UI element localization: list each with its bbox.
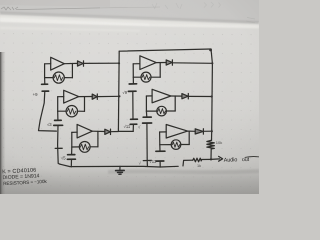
wire R3 output to diode	[188, 130, 196, 132]
resistor Rmix horizontal	[193, 158, 202, 162]
tick on L2 stem	[55, 147, 62, 149]
wire L1 input	[45, 63, 51, 65]
wire L2 cap stem to rail	[58, 125, 60, 164]
wire R2 input	[146, 95, 152, 97]
wire bus elbow up to cap	[132, 124, 134, 131]
paper background	[0, 0, 259, 194]
wire R2 diode to right bus	[188, 95, 211, 97]
wire L2 input	[58, 96, 64, 98]
arrowhead audio out	[219, 156, 223, 161]
wire L3 output to diode	[92, 130, 105, 132]
capacitor C-L3 plate bottom	[67, 158, 75, 160]
resistor R-L2 (circle with zigzag)	[66, 106, 77, 117]
faint pencil marks top	[1, 2, 255, 23]
wire L2 input vertical	[57, 97, 59, 120]
op-amp U4 inverter triangle	[140, 56, 156, 70]
resistor R-L3 (circle with zigzag)	[79, 142, 90, 153]
wire L3 feedback vertical	[97, 131, 99, 146]
page curl bright highlight	[0, 16, 259, 29]
capacitor C-R1 plate bottom	[128, 90, 136, 92]
top strip (page behind)	[0, 0, 259, 22]
dot grid	[0, 29, 259, 196]
wire ground rail	[60, 164, 178, 167]
wire R3 feedback vertical	[188, 131, 190, 144]
capacitor C-L3 plate top	[68, 154, 75, 156]
capacitor C-L2 plate top	[55, 119, 62, 121]
capacitor C-L2 plate bottom	[54, 124, 63, 126]
node output junction	[210, 158, 212, 160]
node R2-bus junction	[211, 95, 213, 97]
op-amp U2 inverter triangle	[64, 90, 79, 103]
wire L1 feedback left	[45, 77, 54, 79]
op-amp U5 inverter triangle	[152, 89, 171, 103]
wire L3 input	[72, 131, 77, 133]
op-amp U3 inverter triangle	[77, 124, 92, 137]
node L1-bus junction	[118, 62, 120, 64]
wire R2 feedback right	[166, 110, 175, 112]
secondary curl ridge left	[0, 27, 140, 32]
bottom crease shadow	[108, 169, 259, 174]
wire bus right vertical upper	[211, 49, 212, 140]
resistor R-R1 (circle with zigzag)	[141, 72, 151, 82]
capacitor C-bus plate top	[131, 118, 138, 120]
wire audio out arrow	[211, 158, 220, 161]
op-amp U6 inverter triangle	[166, 125, 187, 139]
wire L2 feedback vertical	[84, 97, 86, 112]
node L2-bus junction	[118, 95, 120, 97]
capacitor C-R1 plate top	[129, 83, 136, 85]
wire L3 cap stem to rail	[70, 159, 72, 167]
wire L3 feedback left	[72, 146, 80, 148]
capacitor C-R3 plate bottom	[156, 160, 164, 162]
wire R1 feedback right	[151, 76, 160, 78]
wire R2 feedback vertical	[174, 96, 176, 111]
diode D-L3	[105, 129, 111, 134]
wire R1 input vertical	[132, 64, 134, 84]
wire bus below resistor	[210, 149, 212, 160]
wire R1 feedback vertical	[159, 63, 161, 78]
node R1-bus junction	[211, 62, 213, 64]
wire R1 input	[133, 63, 140, 65]
wire R1 feedback left	[133, 76, 141, 78]
wire L2 feedback right	[77, 110, 84, 112]
capacitor C-R2 plate top	[143, 116, 151, 118]
wire rail jog up	[183, 160, 193, 166]
capacitor C-bus plate bottom	[130, 123, 137, 125]
wire R3 feedback right	[181, 144, 190, 146]
op-amp U1 inverter triangle	[51, 57, 65, 70]
wire L3 diode to bus bottom	[111, 131, 119, 133]
wire R2 input vertical	[145, 96, 147, 117]
vignette / shadows	[0, 0, 259, 194]
resistor Rout vertical 10k on bus	[207, 140, 214, 149]
wire L3 feedback right	[90, 146, 98, 148]
wire bus left vertical	[117, 51, 120, 131]
wire L1 feedback vertical	[71, 64, 73, 78]
wire L2 output to diode	[79, 96, 93, 98]
diode D-R3	[195, 129, 203, 134]
wire R3 input vertical	[159, 132, 161, 151]
diode D-R2	[182, 94, 188, 99]
node R3-bus junction	[211, 130, 213, 132]
wire R2 output to diode	[171, 95, 182, 97]
wire L1 feedback right	[64, 77, 72, 79]
capacitor C-R2 plate bottom	[143, 122, 152, 124]
wire L2 feedback left	[58, 110, 66, 112]
capacitor C-L1 plate top	[42, 83, 48, 85]
tick on R2 stem	[143, 159, 151, 161]
wire L1 cap stem to L2 stem	[39, 91, 57, 131]
resistor R-R2 (circle with zigzag)	[157, 106, 167, 116]
wire R1 stem between caps	[132, 91, 134, 119]
wire L1 diode to left bus	[84, 62, 120, 64]
diode D-L2	[92, 94, 97, 99]
wire L1 input vertical	[44, 64, 46, 84]
wire L3 input vertical	[71, 132, 73, 154]
diode D-L1	[78, 61, 84, 66]
wire R1 output to diode	[156, 62, 166, 64]
wire R1 diode to right bus	[172, 62, 212, 65]
seam shadow above curl	[0, 12, 259, 24]
wire R2 cap stem to rail	[146, 123, 149, 166]
wire R3 input	[160, 131, 167, 133]
wire R3 diode to right bus	[203, 130, 212, 132]
diode D-R1	[166, 60, 172, 65]
wire L1 output to diode	[64, 62, 77, 64]
wire resistor to junction	[202, 158, 211, 160]
resistor R-R3 (circle with zigzag)	[171, 140, 181, 150]
wire R3 cap stem to rail	[159, 161, 161, 167]
wire R3 feedback left	[160, 144, 172, 146]
wire bus bottom elbow	[118, 130, 133, 132]
capacitor C-L1 plate bottom	[42, 90, 48, 92]
wire R2 feedback left	[146, 110, 157, 112]
capacitor C-R3 plate top	[156, 150, 165, 152]
wire L2 diode to left bus	[97, 95, 119, 97]
ground symbol	[119, 166, 121, 170]
resistor R-L1 (circle with zigzag)	[53, 72, 64, 83]
wire bus top horizontal	[119, 49, 211, 51]
